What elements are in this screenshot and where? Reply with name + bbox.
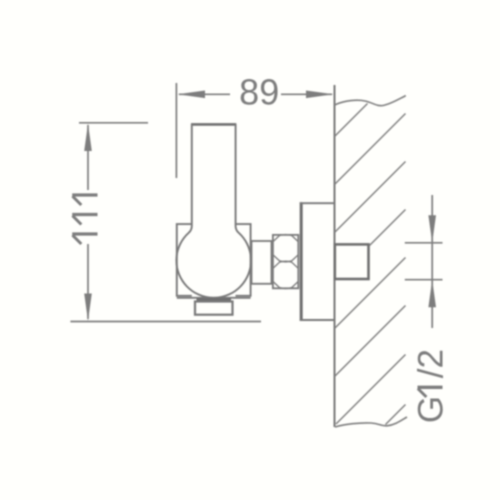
bracket square bottom edge: [177, 297, 251, 299]
wall bottom break (wavy line): [335, 417, 407, 427]
dimension 89 left arrowhead: [178, 91, 206, 99]
wall hatch line 2: [335, 114, 406, 185]
right dimension bottom tick: [405, 279, 443, 281]
right dimension up arrowhead: [428, 280, 436, 308]
right dimension top tick: [405, 242, 443, 244]
dimension 111 top extension line: [79, 122, 148, 124]
wall hatch line 3: [335, 162, 406, 233]
dimension 89 extension line left: [175, 83, 177, 178]
right dimension vertical line: [431, 195, 433, 328]
lower nut rectangle: [195, 302, 233, 315]
dimension 111 text digit 1c: [72, 232, 97, 235]
dimension 111 line lower segment: [87, 244, 89, 319]
wall hatch line 7: [336, 355, 406, 425]
dimension 111 line upper segment: [87, 125, 89, 190]
wall plate top edge: [300, 202, 335, 204]
wall hatch line 6: [335, 306, 406, 377]
wall hatch line 5: [335, 258, 406, 329]
wall hatch line 8 (short, bottom right): [386, 405, 406, 425]
hex nut lower cell (octagon): [273, 261, 298, 288]
wall hatch line 4 (from pipe corner): [370, 210, 406, 246]
pipe into wall: [335, 244, 369, 279]
dimension 111 bottom extension line: [70, 321, 261, 323]
handle tube body with ball (chalice outline): [176, 124, 251, 298]
right dimension down arrowhead: [428, 215, 436, 243]
wall plate left edge (thick): [300, 202, 303, 321]
wall top break (wavy line): [335, 96, 406, 106]
connector rectangle: [252, 241, 272, 284]
hex nut outline rect: [273, 235, 298, 288]
dimension 111 text digit 1b: [72, 213, 97, 216]
hex nut upper cell (octagon): [273, 235, 298, 262]
svg-text:89: 89: [239, 72, 279, 113]
dimension 111 down arrowhead: [84, 294, 92, 322]
dimension 89 right arrowhead: [306, 91, 334, 99]
lower nut dark bar: [197, 298, 232, 302]
dimension 89 line right segment: [281, 93, 332, 95]
wall plate bottom edge: [300, 319, 335, 321]
bracket square top edge right part: [236, 224, 251, 296]
dimension 111 text digit 1a (drawn, rotated style): [72, 193, 97, 196]
G1/2 text digit 1 (drawn, rotated style): [418, 386, 443, 389]
wall hatch line 1: [335, 104, 368, 137]
dimension 111 up arrowhead: [84, 124, 92, 152]
wall face line: [334, 85, 336, 427]
dimension 89 line left segment: [179, 93, 230, 95]
bracket square top-left edge: [177, 224, 192, 296]
svg-text:/2: /2: [412, 349, 451, 378]
svg-text:G: G: [412, 396, 451, 423]
handle tube top edge: [191, 123, 236, 126]
